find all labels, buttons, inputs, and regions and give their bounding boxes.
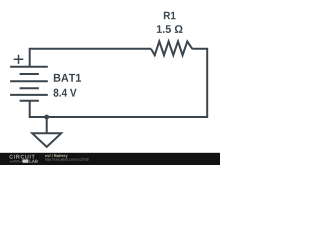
node junction dot (44, 115, 49, 120)
R1 value label 1.5 ohm (157, 25, 183, 33)
wire resistor to bottom right corner (47, 49, 207, 117)
battery plus sign (14, 55, 24, 64)
battery plate long 1 (10, 66, 48, 68)
wire bottom to battery bottom terminal (30, 101, 47, 117)
watermark logo resistor squiggle (10, 160, 22, 162)
battery plate long 2 (10, 80, 48, 82)
label BAT1 (54, 74, 81, 82)
battery plate short 3 (20, 100, 39, 102)
watermark bar (0, 153, 220, 165)
watermark logo CIRCUIT (9, 155, 34, 159)
ground (32, 117, 61, 147)
label R1 (164, 12, 176, 19)
wire battery top terminal to resistor (30, 49, 151, 67)
battery plate long 3 (10, 94, 48, 96)
resistor R1 (151, 41, 192, 55)
watermark logo LAB box (22, 159, 28, 162)
watermark logo LAB (30, 160, 38, 163)
watermark title text (45, 154, 68, 158)
watermark url text (45, 158, 88, 161)
battery plate short 1 (20, 73, 39, 75)
battery BAT1 (10, 55, 48, 101)
BAT1 value label 8.4 V (54, 89, 77, 97)
battery plate short 2 (20, 87, 39, 89)
